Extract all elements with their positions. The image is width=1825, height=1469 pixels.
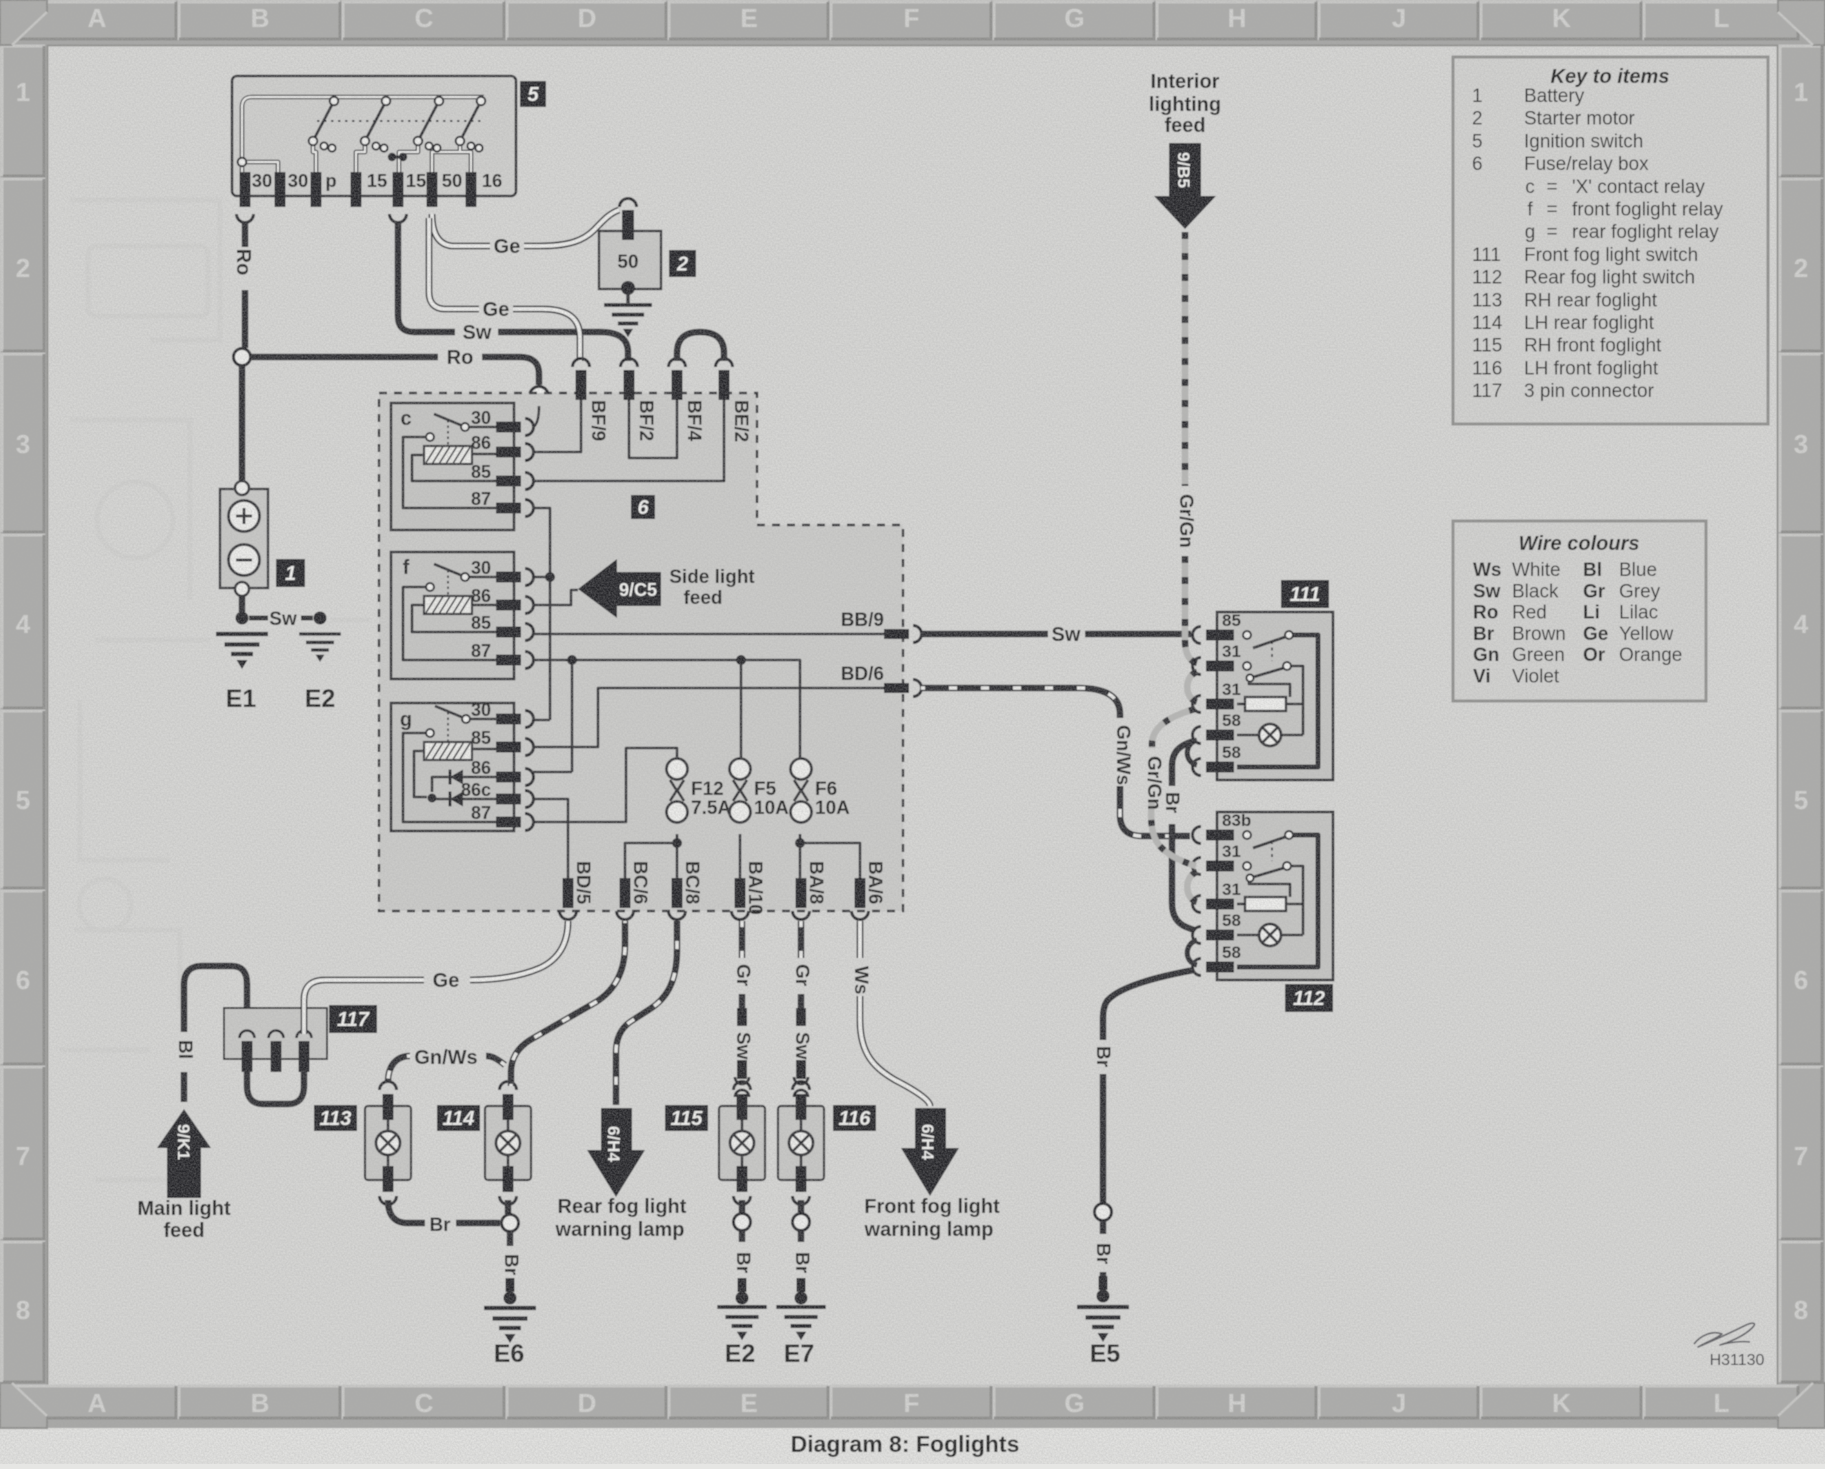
fuse/relay box 6 [379, 393, 903, 911]
relay c [391, 403, 534, 530]
node f30 [545, 572, 555, 582]
wire Br 116 to E7 [791, 1200, 812, 1305]
ground starter [604, 292, 652, 337]
node F12 out [672, 838, 682, 848]
fuse F12 7.5A [667, 759, 688, 780]
wire g85 to BD/6 [533, 688, 884, 747]
wire colours box [1453, 521, 1706, 701]
wire f86 to side light feed [533, 590, 578, 605]
RH rear foglight 113 [314, 1082, 411, 1205]
front fog warning arrow 6/H4 [864, 1108, 1001, 1241]
interior lighting feed arrow 9/B5 [1149, 71, 1221, 229]
ground E5 [1077, 1307, 1129, 1368]
wire Br to E5 [1092, 970, 1194, 1303]
wire c86 to BF/9 [533, 400, 581, 452]
ignition switch 5 [232, 76, 546, 207]
wire Ro vertical [232, 214, 254, 348]
connector BF/4 [669, 359, 705, 442]
wire Ge to BF/9 [429, 218, 580, 361]
connector BF/9 [573, 359, 609, 442]
wire Ge from BD/5 to 117 [304, 921, 568, 1034]
wire g87 to F12 [533, 748, 677, 822]
wire g86c to BD/5 [533, 799, 568, 878]
connector BC/8 [669, 861, 703, 920]
wire Ge to starter [432, 210, 619, 258]
wire Gn/Ws BC/6 to 114 [511, 921, 625, 1086]
ground E7 [776, 1307, 825, 1368]
node f87 junction [567, 655, 577, 665]
key to items box [1453, 57, 1768, 424]
wire BF/4-BE/2 arch [677, 332, 724, 361]
front fog light switch 111 [1187, 580, 1333, 780]
ground E6 [484, 1308, 536, 1368]
wire Ro horizontal to 30A [251, 347, 539, 385]
relay f [391, 552, 534, 679]
side light feed arrow 9/C5 [578, 559, 755, 618]
wire f87 to fuses [533, 660, 800, 772]
node F6 out [795, 838, 805, 848]
wire BF/2-BF/4 link [629, 400, 677, 458]
wire Sw to BF/2 [390, 214, 629, 361]
wire Gr Sw to 115 [732, 921, 753, 1097]
connector BA/8 [793, 861, 827, 920]
wire Ro to battery [239, 366, 246, 481]
wire Sw to switch 111 [921, 624, 1191, 646]
main light feed arrow 9/K1 [137, 1109, 231, 1242]
wire Gn/Ws to switch 112 [921, 688, 1190, 836]
connector BF/2 [621, 359, 657, 442]
ground E2 [269, 609, 341, 713]
LH front foglight 116 [778, 1082, 876, 1205]
wire c87 to relay f30 and g30 [533, 508, 550, 720]
connector BE/2 [716, 359, 752, 443]
node 30A [530, 387, 563, 440]
connector BB/9 [841, 610, 922, 643]
wire f85 to BB/9 [533, 633, 884, 636]
connector BD/5 [560, 861, 594, 920]
rear fog light switch 112 [1187, 811, 1333, 1012]
wire Br 113 114 to E6 [388, 1200, 521, 1305]
connector BA/10 [732, 861, 766, 920]
wire Ws BA/6 to front warning arrow [850, 921, 930, 1106]
wire Gr/Gn from interior feed [1175, 232, 1197, 663]
rear fog warning arrow 6/H4 [555, 921, 687, 1241]
relay g [391, 700, 534, 831]
wire Br 111 to 112 [1161, 741, 1194, 930]
wire 30A to relay c 30 [533, 406, 539, 427]
fuse F5 10A [730, 759, 751, 780]
RH front foglight 115 [665, 1082, 765, 1205]
LH rear foglight 114 [437, 1082, 531, 1205]
ground E2 bottom [717, 1307, 766, 1368]
starter motor 2 [599, 199, 696, 296]
ground E1 [216, 596, 268, 713]
wire Bl [174, 966, 247, 1102]
connector BD/6 [841, 664, 922, 697]
battery 1 [220, 481, 305, 596]
connector BA/6 [852, 861, 886, 920]
wire 117 loop [247, 1070, 304, 1104]
node F5 junction [736, 655, 746, 665]
wire Br 115 to E2 [732, 1200, 753, 1305]
fuse F6 10A [791, 759, 812, 780]
wire Gr/Gn 111 to 112 [1143, 709, 1196, 866]
node Ro junction [234, 349, 251, 366]
wire F12 out [625, 834, 677, 878]
wire Gn/Ws branch to 113 [388, 1047, 505, 1082]
wire Gr Sw to 116 [791, 921, 812, 1097]
3 pin connector 117 [224, 1005, 377, 1072]
wire F6 out [800, 834, 860, 878]
connector BC/6 [617, 861, 651, 920]
wire F5 out [739, 834, 742, 878]
wire c85 to BE/2 [533, 400, 724, 481]
